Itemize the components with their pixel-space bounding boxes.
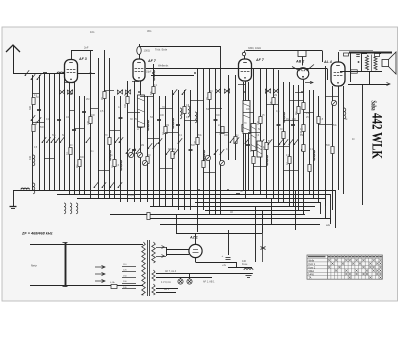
wire vertical V34 x228 — [228, 75, 230, 160]
label rot12 — [162, 131, 165, 135]
switch position table — [307, 255, 382, 280]
label v2-12 — [116, 165, 120, 167]
wire vertical V42 x273 — [273, 69, 275, 199]
wire jog J32 — [160, 168, 172, 170]
wire jog J2 — [33, 122, 44, 124]
svg-text:3300, 10kΩ: 3300, 10kΩ — [248, 47, 261, 50]
wire vertical V14 x104 — [104, 50, 106, 198]
resistor R20 — [234, 137, 237, 144]
resistor R8 — [113, 160, 116, 167]
resistor R11 — [146, 157, 149, 164]
wire vertical V18 x127 — [127, 81, 129, 202]
wire vertical V38 x248 — [248, 82, 250, 190]
wire jog J22 — [289, 100, 303, 102]
label rot20 — [286, 161, 289, 165]
wire bus y202 — [195, 202, 321, 214]
label v2-5 — [62, 135, 65, 137]
ground left — [10, 190, 17, 209]
coil L2 — [33, 183, 35, 194]
switch S25 — [289, 139, 294, 145]
svg-text:AF 7, AL 4: AF 7, AL 4 — [165, 270, 177, 273]
label 440 fuse — [242, 260, 248, 266]
svg-text:2M: 2M — [181, 112, 184, 115]
resistor R15 — [183, 107, 186, 114]
resistor R28 — [242, 125, 245, 132]
node N8 — [90, 72, 92, 74]
label Saba — [370, 101, 378, 111]
coil L9 — [195, 112, 197, 123]
capacitor C-top1 — [356, 55, 360, 57]
svg-text:442 WLK: 442 WLK — [369, 113, 385, 160]
node N10 — [227, 189, 229, 191]
output transformer T2 — [361, 53, 381, 72]
label val10 — [186, 116, 190, 119]
svg-text:100: 100 — [246, 108, 251, 111]
switch S12 — [182, 89, 187, 95]
capacitor C14 — [301, 150, 305, 151]
svg-text:2M: 2M — [274, 95, 277, 97]
heater lamp 2 — [187, 274, 192, 285]
node N6 — [244, 91, 246, 93]
resistor R3 — [69, 148, 72, 155]
wire jog J12 — [165, 132, 178, 134]
node N5 — [194, 72, 196, 74]
wire drop x176 — [176, 214, 178, 233]
wire jog J35 — [284, 170, 298, 172]
capacitor C-AB2 top — [298, 51, 306, 66]
wire jog J9 — [140, 96, 153, 98]
wire vertical V24 x165.5 — [165, 96, 167, 206]
wire jog J27 — [132, 81, 139, 83]
wire vertical V37 x245 — [245, 81, 247, 198]
wire vertical V5 x54 — [54, 73, 56, 190]
switch S19 — [235, 137, 240, 143]
wire antenna feed — [13, 73, 95, 75]
wire mains top-left — [30, 244, 65, 246]
resistor R16 — [196, 138, 199, 145]
wire vertical V30 x203 — [203, 69, 205, 211]
wire vertical V2 x39 — [39, 75, 41, 190]
coil L12 — [147, 120, 149, 131]
tube V5 AL4 — [323, 60, 345, 86]
wire vertical V46 x293 — [293, 85, 295, 206]
HV tap arrow 1 — [156, 246, 166, 249]
wire right drop — [362, 84, 364, 205]
voltage taps — [122, 264, 136, 289]
capacitor C6 — [132, 150, 136, 151]
wire bus y206 — [150, 206, 315, 208]
svg-text:AF 1, AB 1: AF 1, AB 1 — [203, 281, 215, 284]
node N7 — [301, 91, 303, 93]
IF transformer T-if2 — [243, 101, 250, 134]
wire drop x262 — [261, 210, 266, 262]
svg-text:300: 300 — [257, 120, 260, 125]
label rot15 — [206, 97, 209, 100]
wire vertical V17 x120.5 — [120, 96, 122, 202]
label val7 — [130, 118, 133, 121]
IF transformer T-if4 — [257, 141, 262, 157]
coil L6 — [153, 70, 155, 81]
wire bus y194 — [57, 194, 331, 222]
label val13 — [246, 108, 251, 111]
wire vertical V9 x74 — [74, 82, 76, 194]
label v2-42 — [320, 119, 324, 121]
wire jog J16 — [215, 132, 228, 134]
wire top bus 3 — [146, 69, 328, 81]
switch S13 — [126, 148, 130, 154]
capacitor C4 — [82, 112, 86, 113]
switch S31 — [31, 74, 36, 80]
svg-text:AF 7: AF 7 — [147, 59, 157, 63]
coil L-ant — [57, 72, 66, 74]
wire vertical V16 x114 — [114, 96, 116, 198]
label val14 — [258, 128, 261, 131]
wire jog J20 — [273, 146, 289, 148]
label rot2 — [29, 155, 32, 160]
switch S15 — [136, 148, 141, 154]
svg-text:Trüb. Erde: Trüb. Erde — [155, 48, 168, 52]
wire vertical V7 x64 — [64, 73, 66, 190]
switch S5 — [60, 137, 64, 143]
label Trueb Erde — [155, 48, 168, 52]
label rot4 — [66, 151, 69, 155]
resistor R19 — [221, 127, 224, 134]
capacitor 2nF at V1 — [84, 46, 89, 50]
wire vertical V26 x178 — [178, 90, 180, 210]
coil L3 — [64, 203, 66, 214]
wire bandfilter box — [146, 71, 194, 76]
svg-text:500: 500 — [150, 116, 155, 119]
mains switch bar — [63, 243, 68, 287]
trimmer CT5 — [117, 89, 122, 94]
label heater4 — [164, 288, 170, 291]
svg-text:Wellenbr.: Wellenbr. — [158, 64, 169, 68]
resistor R24 — [282, 132, 285, 139]
resistor R9 — [126, 97, 129, 104]
label rot13 — [181, 112, 184, 115]
wire jog J11 — [159, 108, 172, 110]
speaker LS — [340, 52, 396, 74]
trimmer CT1 — [215, 88, 220, 93]
label v2-24 — [198, 135, 203, 137]
resistor R6 — [103, 92, 106, 99]
svg-text:Fuse: Fuse — [242, 263, 248, 266]
label v2-28 — [224, 135, 229, 137]
label rot8 — [111, 165, 114, 168]
label heater3 — [203, 281, 215, 284]
resistor R-out — [351, 70, 358, 73]
wire drop x295 — [295, 190, 297, 230]
label v2-25 — [204, 159, 207, 161]
label rot19 — [270, 100, 273, 105]
svg-text:0,1A: 0,1A — [110, 281, 115, 284]
switch S16 — [158, 138, 163, 144]
switch S18 — [230, 137, 235, 143]
wire vertical V20 x140.5 — [140, 81, 142, 202]
HV tap arrow 2 — [156, 255, 166, 258]
label v2-7 — [80, 157, 85, 159]
coil L14 — [203, 150, 205, 161]
wire vertical V48 x303 — [303, 80, 305, 214]
switch S23 — [279, 139, 284, 145]
svg-text:TA: TA — [309, 277, 312, 280]
node N1 — [63, 72, 65, 74]
capacitor C9 — [189, 150, 193, 151]
label 3000 1k — [248, 47, 261, 50]
potentiometer P2 — [137, 152, 142, 157]
wire jog J25 — [325, 96, 338, 98]
resistor RR3 — [302, 145, 305, 152]
tube V1 AF3 — [65, 57, 87, 83]
coil L-fuse — [244, 269, 253, 271]
capacitor C2 — [57, 120, 61, 121]
label val20 — [168, 148, 173, 151]
label rot1 — [29, 105, 32, 110]
label rot22 — [300, 130, 303, 135]
wire V3 top — [242, 51, 245, 60]
coil L1 — [33, 155, 35, 166]
svg-text:AZ 1: AZ 1 — [189, 236, 198, 240]
svg-text:2M: 2M — [295, 112, 298, 115]
svg-text:1M: 1M — [166, 125, 169, 127]
antenna — [6, 45, 20, 73]
svg-text:100: 100 — [300, 130, 303, 135]
wire drop x271 — [271, 198, 273, 224]
label val6 — [118, 106, 121, 109]
label v2-23 — [191, 145, 196, 147]
wire drop x228 — [228, 230, 230, 255]
wire vertical V47 x298 — [298, 85, 300, 210]
label val15 — [276, 110, 280, 113]
coil L13 — [172, 118, 174, 129]
label Netz — [31, 264, 37, 268]
wire vertical V54 x338 — [338, 86, 340, 190]
wire supply joint — [176, 233, 262, 235]
capacitor C12 — [277, 125, 281, 126]
svg-text:AL 4: AL 4 — [323, 60, 332, 64]
wire AZ1 cathode — [196, 258, 253, 268]
wire jog J26 — [64, 82, 71, 84]
wire jog J14 — [190, 100, 203, 102]
wire vertical V10 x79 — [79, 96, 81, 194]
wire vertical V49 x309 — [309, 90, 311, 194]
resistor RR5 — [317, 117, 320, 124]
label v2-30 — [244, 123, 247, 125]
capacitor C-ant — [43, 73, 47, 74]
label v2-19 — [166, 125, 169, 127]
node N4 — [152, 72, 154, 74]
label v2-41 — [310, 149, 314, 151]
svg-text:2M: 2M — [86, 98, 89, 101]
capacitor C3 — [72, 130, 76, 131]
switch S2 — [46, 137, 51, 143]
trimmer CT4 — [273, 88, 278, 93]
capacitor C7 — [157, 120, 161, 121]
switch S14 — [131, 148, 136, 154]
switch S21 — [260, 139, 265, 145]
switch S27 — [94, 182, 98, 188]
label val18 — [306, 116, 309, 119]
switch S4 — [55, 137, 60, 143]
wire vertical V52 x325 — [325, 66, 327, 206]
switch S10 — [153, 143, 158, 149]
svg-text:AF 3: AF 3 — [78, 57, 87, 61]
switch S-ant — [25, 70, 30, 76]
label rot9 — [124, 103, 127, 108]
wire vertical V29 x197 — [197, 69, 199, 233]
svg-text:Kurz 1: Kurz 1 — [309, 263, 316, 266]
wire jog J6 — [104, 90, 114, 92]
wire vertical V11 x84 — [84, 96, 86, 194]
label v2-44 — [333, 125, 338, 127]
label val16 — [286, 118, 289, 121]
wire vertical V40 x260 — [260, 69, 262, 195]
switch S32 — [37, 74, 42, 80]
wire bus y214 — [110, 210, 305, 215]
label val17 — [300, 128, 303, 131]
label rot6 — [87, 120, 90, 125]
label 30n — [147, 29, 152, 33]
svg-text:Kurz 2: Kurz 2 — [309, 266, 316, 269]
label rot21 — [295, 112, 298, 115]
label v2-14 — [135, 119, 138, 121]
switch S28 — [102, 182, 106, 188]
node N9 — [198, 189, 200, 191]
svg-text:2M: 2M — [141, 145, 144, 147]
trimmer CT8 — [67, 89, 72, 94]
label v2-16 — [148, 155, 151, 157]
label v2-46 — [352, 139, 355, 141]
svg-text:300: 300 — [124, 103, 127, 108]
label v2-11 — [110, 155, 113, 157]
label v2-2 — [34, 147, 38, 149]
wire vertical V21 x147 — [147, 96, 149, 202]
coil L8 — [188, 106, 190, 117]
coil L17 — [313, 150, 315, 161]
potentiometer P4 — [331, 100, 336, 105]
node out — [358, 61, 360, 63]
coil on bus — [21, 188, 29, 189]
label rot5 — [76, 165, 79, 168]
label v2-22 — [186, 105, 190, 107]
svg-text:400: 400 — [29, 155, 32, 160]
coil L4 — [70, 203, 72, 214]
wire vertical V13 x98 — [98, 58, 100, 198]
trimmer CT7 — [59, 89, 64, 94]
wire heater bus2 — [156, 277, 212, 279]
svg-text:400: 400 — [137, 125, 140, 130]
switch S9 — [148, 143, 153, 149]
wire vertical V25 x172 — [172, 90, 174, 206]
label val5 — [100, 110, 104, 113]
label v2-9 — [91, 151, 94, 153]
label v2-21 — [179, 135, 183, 137]
wire vertical V44 x283.5 — [283, 82, 285, 202]
wire vertical V31 x209 — [209, 69, 211, 215]
coil L15 — [266, 155, 268, 166]
wire out-1 — [350, 52, 352, 82]
switch S30 — [118, 182, 122, 188]
label val3 — [66, 116, 71, 119]
wire jog J10 — [147, 138, 159, 140]
wire jog J31 — [98, 170, 109, 172]
resistor R7 — [108, 138, 111, 145]
capacitor C10 — [214, 120, 218, 121]
wire vertical V41 x266.5 — [266, 69, 268, 199]
wire mains bottom-left — [30, 285, 65, 287]
svg-text:ZF = 468/468 kHz: ZF = 468/468 kHz — [21, 232, 53, 236]
label v2-15 — [141, 145, 144, 147]
capacitor C-bus — [236, 190, 243, 195]
svg-text:400: 400 — [263, 145, 266, 150]
svg-text:Lang: Lang — [309, 274, 315, 276]
svg-text:Welle: Welle — [309, 260, 315, 262]
wire jog J4 — [74, 128, 84, 130]
wire mains bottom — [65, 285, 143, 287]
svg-text:2nF: 2nF — [84, 46, 89, 50]
label rot16 — [219, 132, 222, 135]
resistor R10 — [139, 121, 142, 128]
wire bus y198 — [77, 198, 326, 218]
wire jog J8 — [127, 112, 140, 114]
label v2-3 — [40, 127, 45, 129]
label v2-40 — [306, 113, 310, 115]
label val9 — [162, 106, 165, 109]
wire vertical V36 x243 — [243, 82, 245, 190]
wire bus y190 — [13, 190, 336, 228]
wire vertical V50 x313.5 — [313, 90, 315, 198]
wire vertical V32 x215.5 — [215, 69, 217, 215]
coil L7 — [180, 108, 182, 119]
label rot17 — [257, 120, 260, 125]
switch S37 — [214, 149, 219, 155]
label v2-32 — [256, 135, 260, 137]
resistor R-top1 — [344, 53, 349, 56]
label v2-39 — [300, 135, 303, 137]
label v2-45 — [345, 119, 348, 121]
svg-text:2M: 2M — [76, 165, 79, 168]
wire bus y210 — [205, 210, 310, 212]
wire mains top — [65, 244, 143, 246]
wire jog J5 — [90, 108, 98, 110]
resistor R5 — [89, 117, 92, 124]
resistor R18 — [208, 93, 211, 100]
tube V2 AF7 — [133, 59, 157, 81]
wire vertical V35 x235 — [235, 75, 237, 160]
wire anode top bold — [339, 51, 392, 53]
capacitor C8 — [176, 125, 180, 126]
switch S8 — [119, 137, 123, 143]
svg-text:100Ω: 100Ω — [144, 49, 150, 53]
voltage selector arrows — [95, 266, 105, 283]
wire AZ1 top — [195, 233, 197, 244]
wire speaker down — [348, 71, 390, 86]
coil L5 — [76, 203, 78, 214]
resistor R12 — [152, 87, 155, 94]
wire vertical V22 x153 — [153, 64, 155, 206]
label ZF — [21, 232, 53, 236]
resistor RR6 — [331, 147, 334, 154]
ground fuse — [244, 274, 253, 278]
label v2-20 — [173, 149, 177, 151]
wire vertical V27 x184 — [184, 90, 186, 210]
wire jog J17 — [243, 112, 253, 114]
resistor RR2 — [302, 125, 305, 132]
switch S22 — [268, 139, 273, 145]
tube V4 AB2 — [292, 60, 314, 93]
wire AL4 anode — [338, 52, 340, 62]
label val4 — [86, 98, 89, 101]
